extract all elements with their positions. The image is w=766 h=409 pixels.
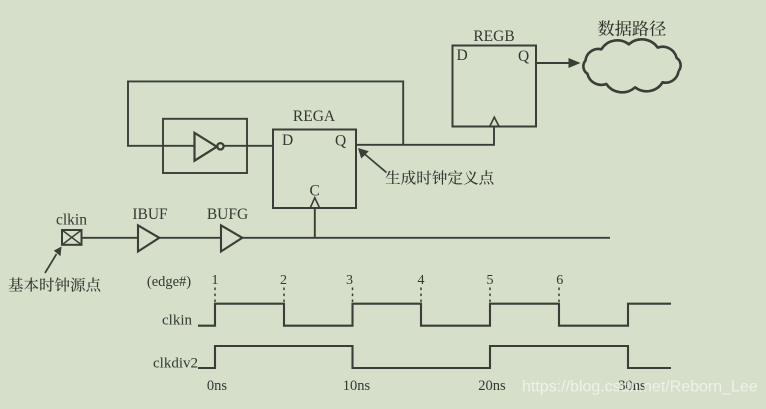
buffer IBUF [138,225,159,251]
flip-flop REGB [453,46,537,127]
svg-text:D: D [457,47,468,64]
svg-text:4: 4 [418,273,425,288]
svg-text:D: D [282,132,293,149]
svg-text:clkin: clkin [56,212,87,229]
waveform clkdiv2 [198,346,671,368]
wire BUFG clock line [242,237,610,239]
wire inverter output to REGA D [224,145,273,147]
wire clkin to IBUF [82,237,139,239]
flip-flop REGA [273,130,356,209]
edge marker line 6 [558,288,560,303]
svg-text:https://blog.csdn.net/Reborn_L: https://blog.csdn.net/Reborn_Lee [522,379,758,396]
svg-text:20ns: 20ns [478,378,506,394]
label generated clock definition point (生成时钟定义点) [385,170,493,185]
svg-text:clkdiv2: clkdiv2 [153,356,198,372]
svg-text:2: 2 [280,273,287,288]
svg-text:0ns: 0ns [207,378,228,394]
label base clock source point (基本时钟源点) [9,277,101,291]
edge marker line 5 [489,288,491,303]
svg-text:1: 1 [212,273,219,288]
waveform clkin [198,304,671,326]
svg-text:5: 5 [487,273,494,288]
cloud data path [583,39,680,92]
svg-text:10ns: 10ns [343,378,371,394]
clock caret of REGB [490,117,499,126]
svg-text:Q: Q [335,132,346,149]
wire clock line to REGA C [314,208,316,238]
svg-text:REGA: REGA [293,108,336,125]
inverter U1 [195,133,224,161]
svg-text:BUFG: BUFG [207,206,248,223]
edge marker line 4 [420,288,422,303]
inverter box [163,119,247,173]
clock source clkin [62,230,82,245]
svg-text:Q: Q [518,48,529,65]
svg-text:3: 3 [346,273,353,288]
wire REGB Q to data path [536,58,581,68]
svg-text:(edge#): (edge#) [147,274,191,290]
svg-text:IBUF: IBUF [132,206,168,223]
wire inverter input [127,145,195,147]
wire REGA Q to REGB clock [356,127,494,145]
edge marker line 3 [352,288,354,303]
clock caret of REGA [310,198,319,208]
arrow to generated clock definition point [358,148,387,173]
svg-text:REGB: REGB [473,28,514,45]
edge marker line 2 [283,288,285,303]
buffer BUFG [221,225,242,251]
wire IBUF to BUFG [159,237,221,239]
edge marker line 1 [214,288,216,303]
label data path (数据路径) [598,20,666,36]
svg-text:6: 6 [556,273,563,288]
wire feedback top [128,81,403,145]
svg-text:clkin: clkin [162,313,192,329]
arrow to base clock source point [45,247,62,274]
